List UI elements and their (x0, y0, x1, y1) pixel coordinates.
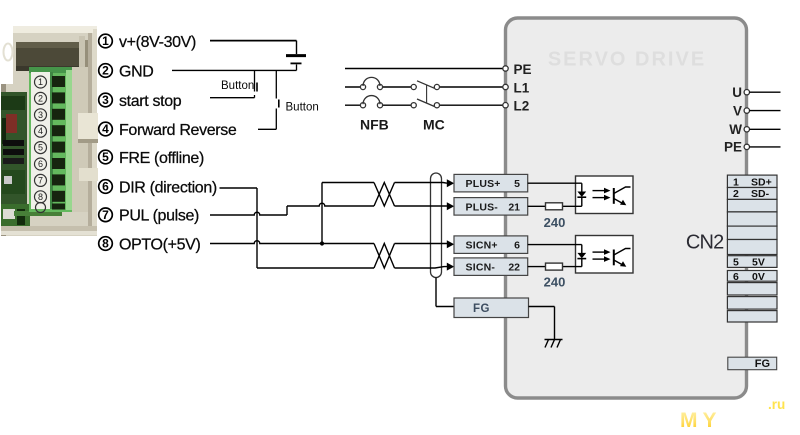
svg-text:22: 22 (508, 262, 520, 274)
svg-text:.ru: .ru (768, 397, 785, 412)
resistor R2 240 (546, 263, 563, 270)
svg-text:6: 6 (38, 159, 43, 169)
svg-text:PE: PE (514, 62, 532, 77)
contactor MC mechanical link (426, 85, 428, 104)
wire: v+ to battery (210, 40, 297, 42)
pin 6 label: DIR (direction) (99, 179, 217, 196)
wire: TP1 to PLUS+ (395, 182, 448, 185)
arrow into SICN+ (447, 240, 454, 248)
svg-text:OPTO(+5V): OPTO(+5V) (119, 236, 200, 253)
svg-text:7: 7 (102, 208, 109, 222)
LED inside U2 (577, 192, 586, 198)
wire: Forward Reverse (258, 128, 276, 130)
pin box FG (454, 298, 529, 318)
svg-text:SD-: SD- (751, 188, 770, 200)
wire: FG to ground (529, 307, 555, 340)
shield oval (431, 173, 442, 278)
svg-text:2: 2 (102, 64, 109, 78)
wire: battery drop (296, 41, 298, 54)
wire: TP2 to SICN+ (395, 243, 448, 245)
optocoupler U2 box (576, 176, 634, 214)
svg-text:PLUS+: PLUS+ (466, 178, 501, 190)
svg-text:240: 240 (544, 215, 566, 230)
terminal L2 (503, 103, 508, 108)
LED inside U3 (577, 253, 586, 259)
wire: TP1 to PLUS- (395, 205, 448, 207)
pin 1 label: v+(8V-30V) (99, 34, 196, 51)
svg-text:240: 240 (544, 275, 566, 290)
contactor MC pole L2 (411, 99, 439, 108)
svg-text:8: 8 (38, 192, 43, 202)
pin 5 label: FRE (offline) (99, 150, 204, 167)
wire: SICN- via R2 to U3 LED cathode (528, 259, 582, 267)
arrow into PLUS- (447, 202, 454, 210)
arrow into PLUS+ (447, 179, 454, 187)
pin 7 label: PUL (pulse) (99, 208, 199, 225)
terminal block numbers 1-9 (35, 76, 47, 213)
svg-text:2: 2 (38, 93, 43, 103)
svg-text:Button: Button (286, 102, 319, 114)
svg-text:PUL (pulse): PUL (pulse) (119, 208, 199, 225)
resistor R1 240 (546, 203, 563, 210)
wire: L1 segments (345, 86, 503, 88)
phototransistor Q2 in U3 (614, 249, 631, 267)
wire: TP2 to SICN- (395, 267, 448, 268)
pin 8 label: OPTO(+5V) (99, 236, 201, 253)
svg-text:1: 1 (38, 77, 43, 87)
svg-text:SICN-: SICN- (466, 262, 496, 274)
wire: GND rail (172, 69, 297, 71)
wire: OPTO up-branch to PLUS+ (322, 183, 374, 244)
contactor MC pole L1 (411, 81, 439, 90)
pin 3 label: start stop (99, 93, 182, 110)
pushbutton S2 (276, 70, 279, 129)
svg-text:L1: L1 (514, 81, 530, 96)
CN2 pin 1 SD+ (733, 176, 772, 188)
terminal L1 (503, 84, 508, 89)
svg-text:6: 6 (733, 271, 739, 283)
svg-text:FG: FG (473, 303, 490, 315)
optocoupler U3 box (576, 236, 634, 274)
servo drive box U1 (506, 18, 747, 398)
breaker NFB pole L2 (360, 96, 382, 108)
svg-text:SD+: SD+ (751, 176, 772, 188)
svg-text:v+(8V-30V): v+(8V-30V) (119, 34, 196, 51)
wire: SICN+ to U3 LED anode (528, 245, 582, 254)
arrow into SICN- (447, 263, 454, 271)
wire: PLUS- via R1 to U2 LED cathode (528, 197, 582, 206)
terminal FG (right bottom) (728, 357, 777, 370)
coupling arrows U3 (593, 249, 611, 262)
svg-text:3: 3 (102, 93, 109, 107)
junction: OPTO branch (320, 241, 324, 245)
svg-text:W: W (729, 122, 742, 137)
svg-text:1: 1 (102, 34, 109, 48)
svg-text:SICN+: SICN+ (466, 240, 498, 252)
svg-text:CN2: CN2 (686, 232, 724, 254)
svg-text:5V: 5V (752, 256, 765, 268)
wire: shield to FG (436, 278, 454, 307)
battery B1 (power supply) (286, 56, 306, 71)
terminal U (732, 85, 780, 100)
svg-text:1: 1 (733, 176, 739, 188)
svg-text:5: 5 (733, 256, 739, 268)
svg-text:V: V (733, 103, 742, 118)
ground symbol (545, 340, 563, 348)
svg-text:FRE (offline): FRE (offline) (119, 150, 204, 167)
pin box PLUS+ pin 5 (454, 174, 528, 192)
svg-text:MY: MY (680, 409, 722, 432)
svg-text:8: 8 (102, 237, 109, 251)
pin 2 label: GND (99, 63, 154, 80)
svg-text:Forward Reverse: Forward Reverse (119, 122, 237, 139)
svg-text:U: U (732, 85, 742, 100)
svg-text:Button: Button (221, 80, 254, 92)
CN2 pin 5 5V (733, 256, 765, 268)
coupling arrows U2 (593, 188, 611, 201)
svg-text:SERVO DRIVE: SERVO DRIVE (548, 49, 706, 71)
svg-text:PLUS-: PLUS- (466, 201, 499, 213)
stepper driver module photo (0, 26, 97, 236)
svg-text:L2: L2 (514, 99, 530, 114)
svg-text:MC: MC (423, 117, 445, 133)
CN2 pin 6 0V (733, 271, 765, 283)
wire: PUL with step up (hop over DIR drop) (210, 203, 374, 215)
terminal V (733, 103, 781, 118)
svg-text:DIR (direction): DIR (direction) (119, 179, 217, 196)
wire: DIR bottom run (257, 267, 374, 269)
terminal PE (left) (503, 66, 508, 71)
svg-text:6: 6 (102, 180, 109, 194)
svg-text:FG: FG (755, 358, 770, 370)
svg-text:6: 6 (514, 240, 520, 252)
pushbutton S1 (255, 70, 258, 97)
svg-text:4: 4 (38, 126, 43, 136)
svg-text:21: 21 (508, 201, 520, 213)
svg-text:3: 3 (38, 110, 43, 120)
terminal W (729, 122, 780, 137)
twisted pair TP2 (374, 244, 395, 269)
wire: L2 segments (345, 104, 503, 106)
terminal block screws (52, 76, 65, 210)
phototransistor Q1 in U2 (614, 187, 631, 205)
connector CN2 body (727, 175, 777, 322)
svg-text:5: 5 (514, 178, 520, 190)
svg-text:7: 7 (38, 175, 43, 185)
pin box SICN- pin 22 (454, 258, 528, 276)
wire: DIR with vertical drop (220, 188, 258, 268)
pin box SICN+ pin 6 (454, 236, 528, 254)
svg-text:NFB: NFB (360, 117, 389, 133)
wire: mains PE (345, 68, 503, 70)
wire: OPTO common (hop over DIR drop) (210, 241, 374, 244)
svg-text:PE: PE (724, 140, 742, 155)
svg-text:0V: 0V (752, 271, 765, 283)
pin box PLUS- pin 21 (454, 198, 528, 216)
pin 4 label: Forward Reverse (99, 122, 237, 139)
svg-text:5: 5 (102, 150, 109, 164)
CN2 pin 2 SD- (733, 188, 770, 200)
svg-text:2: 2 (733, 188, 739, 200)
svg-text:GND: GND (119, 63, 154, 80)
svg-text:start stop: start stop (119, 93, 182, 110)
svg-text:4: 4 (102, 122, 109, 136)
terminal PE (right) (724, 140, 781, 155)
wire: PLUS+ to U2 LED anode (528, 183, 582, 192)
wire: start stop (210, 97, 255, 99)
twisted pair TP1 (374, 183, 395, 207)
breaker NFB pole L1 (360, 77, 382, 89)
case details right of terminal block (1, 67, 98, 235)
svg-text:5: 5 (38, 143, 43, 153)
